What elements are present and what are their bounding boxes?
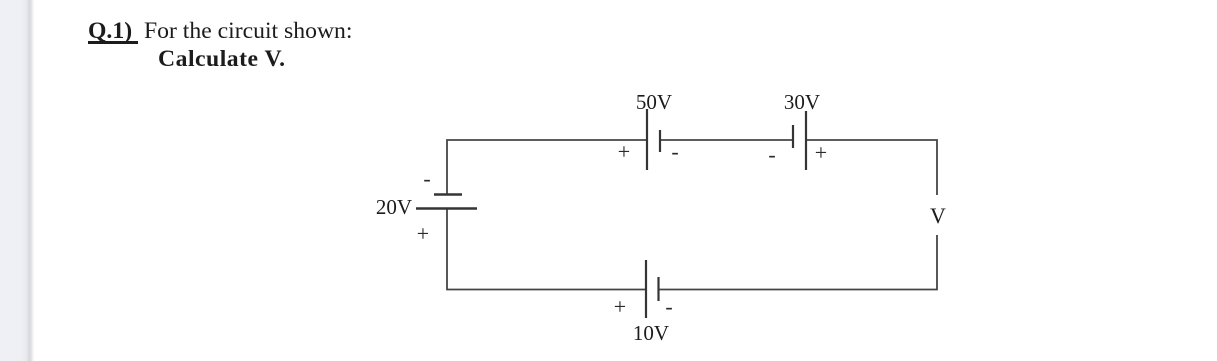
E4 negative short plate [434, 193, 462, 195]
E4 positive long plate [416, 207, 477, 209]
polarity + of 20V [403, 221, 443, 247]
wire top-right (30V battery to top-right corner, down to V gap) [806, 140, 937, 195]
battery E3 10V [646, 260, 659, 318]
polarity - of 30V [752, 142, 792, 168]
polarity + of 50V [604, 139, 644, 165]
value label 10V [611, 321, 691, 346]
polarity + of 30V [801, 140, 841, 166]
node V label (output voltage) [918, 203, 958, 229]
wire top-middle (50V battery to 30V battery) [660, 139, 793, 141]
E3 positive long plate [645, 260, 647, 318]
E2 negative short plate [792, 125, 794, 148]
polarity - of 50V [655, 139, 695, 165]
battery E1 50V [647, 109, 660, 170]
value label 20V [332, 195, 412, 220]
title line 2: Calculate V. [158, 47, 286, 72]
polarity + of 10V [600, 294, 640, 320]
title line 1: Q.1) For the circuit shown: [88, 19, 353, 44]
battery E4 20V (horizontal plates on left wire) [416, 195, 477, 209]
wire bottom-left (10V battery to bottom-left corner up to 20V battery) [447, 208, 646, 290]
wire top-left horizontal (top-left corner to 50V battery) [447, 140, 647, 194]
wire right-lower (below V to bottom-right corner, to 10V battery) [659, 235, 937, 290]
E1 negative short plate [659, 130, 661, 152]
left page-edge shading strip [0, 0, 35, 361]
value label 30V [762, 90, 842, 115]
value label 50V [614, 90, 694, 115]
polarity - of 20V [407, 166, 447, 192]
E2 positive long plate [805, 111, 807, 170]
E1 positive long plate [646, 109, 648, 170]
polarity - of 10V [649, 294, 689, 320]
battery E2 30V [793, 111, 806, 170]
E3 negative short plate [657, 277, 659, 301]
